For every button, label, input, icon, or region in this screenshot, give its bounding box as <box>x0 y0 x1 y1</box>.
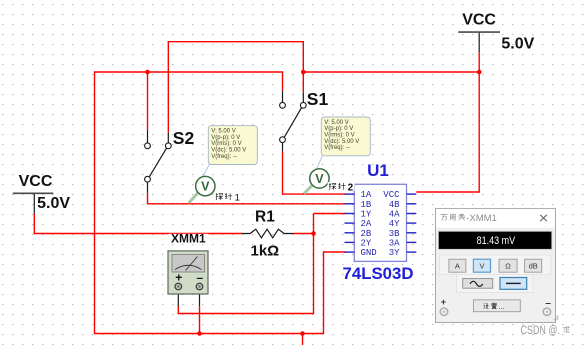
svg-text:V(p-p): 0 V: V(p-p): 0 V <box>324 126 353 132</box>
svg-text:V(freq): --: V(freq): -- <box>211 154 237 160</box>
svg-text:–: – <box>196 271 203 285</box>
svg-text:1kΩ: 1kΩ <box>251 242 280 259</box>
svg-text:S2: S2 <box>173 128 195 148</box>
svg-text:R1: R1 <box>255 208 275 225</box>
svg-text:+: + <box>175 271 182 285</box>
svg-text:2B: 2B <box>361 229 372 239</box>
svg-text:4B: 4B <box>389 200 400 210</box>
svg-text:5.0V: 5.0V <box>501 36 534 53</box>
svg-text:1A: 1A <box>361 190 372 200</box>
svg-text:dB: dB <box>529 262 538 271</box>
svg-text:5.0V: 5.0V <box>37 195 70 212</box>
svg-text:Ω: Ω <box>505 262 511 271</box>
svg-text:2Y: 2Y <box>361 239 372 249</box>
svg-text:A: A <box>455 262 460 271</box>
svg-text:74LS03D: 74LS03D <box>343 264 414 283</box>
svg-text:V(dc): 5.00 V: V(dc): 5.00 V <box>211 148 246 154</box>
svg-text:VCC: VCC <box>383 190 400 200</box>
svg-text:...: ... <box>499 302 505 311</box>
svg-text:3A: 3A <box>389 239 400 249</box>
svg-text:V(dc): 5.00 V: V(dc): 5.00 V <box>324 139 359 145</box>
svg-text:GND: GND <box>361 248 377 258</box>
svg-text:81.43 mV: 81.43 mV <box>477 235 516 247</box>
svg-text:3B: 3B <box>389 229 400 239</box>
svg-text:1B: 1B <box>361 200 372 210</box>
svg-text:S1: S1 <box>307 89 329 109</box>
svg-text:U1: U1 <box>367 161 389 180</box>
svg-text:+: + <box>441 297 446 307</box>
svg-text:V(rms): 0 V: V(rms): 0 V <box>211 141 241 147</box>
svg-text:1Y: 1Y <box>361 210 372 220</box>
svg-text:2A: 2A <box>361 219 372 229</box>
svg-text:3Y: 3Y <box>389 248 400 258</box>
svg-text:1: 1 <box>235 192 240 203</box>
svg-text:4A: 4A <box>389 210 400 220</box>
svg-text:XMM1: XMM1 <box>171 232 206 246</box>
svg-text:VCC: VCC <box>462 12 496 29</box>
svg-text:V: 5.00 V: V: 5.00 V <box>324 120 348 126</box>
svg-text:4Y: 4Y <box>389 219 400 229</box>
svg-text:V(rms): 0 V: V(rms): 0 V <box>324 133 354 139</box>
svg-text:V(freq): --: V(freq): -- <box>324 145 350 151</box>
svg-text:2: 2 <box>348 182 354 193</box>
svg-text:CSDN @.: CSDN @. <box>521 325 561 337</box>
svg-text:-XMM1: -XMM1 <box>466 213 497 224</box>
svg-text:V: V <box>479 262 484 271</box>
svg-text:V: V <box>315 172 324 186</box>
svg-text:V(p-p): 0 V: V(p-p): 0 V <box>211 135 240 141</box>
svg-text:V: V <box>201 180 210 194</box>
svg-text:V: 5.00 V: V: 5.00 V <box>211 129 235 135</box>
svg-text:VCC: VCC <box>19 173 53 190</box>
